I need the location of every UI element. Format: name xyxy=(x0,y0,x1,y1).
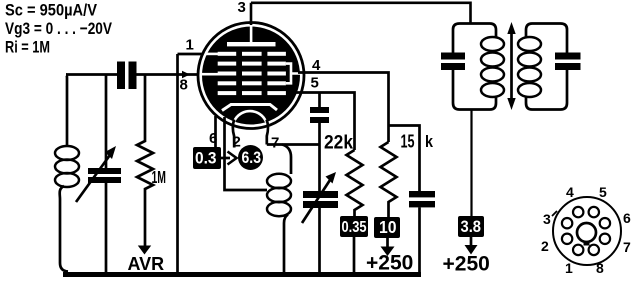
wire pin7 to osc xyxy=(267,143,319,146)
heater left lead xyxy=(233,120,234,148)
svg-text:7: 7 xyxy=(623,239,631,255)
svg-text:10: 10 xyxy=(379,217,397,237)
wire 0.35 to bus xyxy=(353,237,356,273)
capacitor padding xyxy=(310,107,329,113)
wire pin5 xyxy=(296,93,355,151)
svg-text:3: 3 xyxy=(543,211,551,227)
arrow 0.3 to heater xyxy=(220,157,230,160)
AVR arrow xyxy=(138,246,151,255)
tuning double arrow xyxy=(510,31,513,101)
inductor L1 antenna coil xyxy=(55,146,79,187)
arrowhead on grid wire xyxy=(182,71,190,78)
svg-text:k: k xyxy=(425,132,433,151)
svg-text:3: 3 xyxy=(238,0,246,16)
inductor L2 oscillator coil xyxy=(267,174,291,216)
wire osc coil top xyxy=(282,145,291,175)
pin7 lead xyxy=(267,120,268,145)
svg-text:5: 5 xyxy=(311,75,319,92)
value box 0.35 xyxy=(340,216,368,237)
svg-text:0.35: 0.35 xyxy=(342,219,367,236)
wire grid line to ground bus xyxy=(176,54,179,272)
capacitor IFT left xyxy=(441,53,465,60)
arrow +250 feed xyxy=(386,238,389,247)
wire fixed cap column xyxy=(318,93,321,274)
wire right column to bus xyxy=(418,207,421,274)
socket outer circle xyxy=(553,197,621,265)
svg-text:6: 6 xyxy=(209,130,217,147)
pin6 lead xyxy=(214,116,217,147)
wire pin4 branch right xyxy=(389,126,420,192)
socket center key circle xyxy=(577,223,596,242)
wire antenna coil top lead xyxy=(66,75,67,147)
wire IFT feed down xyxy=(470,110,472,217)
socket pin holes xyxy=(562,207,610,255)
resistor 15k xyxy=(381,142,397,217)
socket tick 3 xyxy=(552,211,557,216)
variable capacitor C-tune left xyxy=(105,75,108,274)
svg-text:8: 8 xyxy=(180,77,188,94)
wire pin4 screen xyxy=(298,73,389,143)
svg-text:1: 1 xyxy=(565,260,573,276)
wire osc coil bottom lead xyxy=(284,215,288,273)
svg-text:Vg3 = 0 . . . −20V: Vg3 = 0 . . . −20V xyxy=(5,19,113,38)
svg-text:1: 1 xyxy=(186,37,194,54)
svg-text:3.8: 3.8 xyxy=(461,218,482,236)
socket key notch xyxy=(584,241,590,246)
screen bracket white pins 4-5 xyxy=(286,64,300,84)
svg-text:0.3: 0.3 xyxy=(195,150,217,168)
svg-text:1M: 1M xyxy=(152,167,167,187)
cathode white xyxy=(222,105,277,111)
anode lead white xyxy=(250,27,253,43)
svg-text:Ri = 1M: Ri = 1M xyxy=(5,37,50,56)
wire grid input horizontal y74.5 xyxy=(66,73,203,76)
grid lead pin1 white xyxy=(205,53,218,56)
resistor 22k xyxy=(347,150,363,216)
capacitor C-grid coupling xyxy=(117,62,125,90)
wire antenna coil bottom lead xyxy=(60,186,68,272)
IFT right winding xyxy=(518,37,541,97)
wire cathode lead xyxy=(225,117,268,190)
svg-text:15: 15 xyxy=(401,131,415,152)
svg-text:2: 2 xyxy=(233,134,241,151)
grid dash rows xyxy=(218,52,286,95)
value box 10 xyxy=(374,217,400,238)
svg-text:7: 7 xyxy=(271,135,279,152)
heater voltage circle 6.3 xyxy=(238,145,263,170)
svg-text:2: 2 xyxy=(541,238,549,254)
tube black disc xyxy=(202,27,300,125)
variable capacitor osc tune xyxy=(303,191,338,198)
wire anode to top rail xyxy=(251,3,471,25)
arrow +250 right feed xyxy=(470,237,473,245)
svg-text:8: 8 xyxy=(596,260,604,276)
svg-text:+250: +250 xyxy=(443,253,490,276)
svg-text:6.3: 6.3 xyxy=(242,148,262,167)
IF transformer right box xyxy=(526,24,567,53)
value box 0.3 xyxy=(193,147,221,169)
svg-text:22k: 22k xyxy=(324,133,353,154)
wire pin1 link xyxy=(178,53,208,56)
svg-text:5: 5 xyxy=(599,184,607,200)
svg-text:Sc = 950µA/V: Sc = 950µA/V xyxy=(5,0,98,19)
op: vacuum tube envelope xyxy=(198,23,304,129)
svg-text:6: 6 xyxy=(623,210,631,226)
resistor R 1M xyxy=(137,75,153,247)
anode plate bar xyxy=(227,42,276,46)
capacitor screen bypass right xyxy=(409,191,435,197)
capacitor IFT right xyxy=(555,53,581,60)
heater arc white xyxy=(233,111,268,136)
value box 3.8 xyxy=(458,216,484,237)
IF transformer left box xyxy=(453,24,496,53)
IFT left winding xyxy=(481,37,504,97)
grid lead pin8 white xyxy=(201,73,218,76)
svg-text:+250: +250 xyxy=(366,252,413,275)
svg-text:AVR: AVR xyxy=(128,254,165,274)
ground bus xyxy=(63,272,421,277)
svg-text:4: 4 xyxy=(566,184,574,200)
